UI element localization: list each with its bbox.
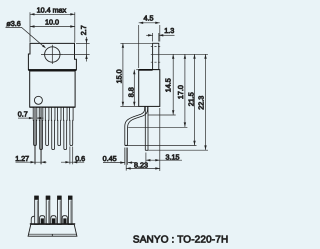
dimension 15.0 <box>120 43 152 106</box>
dimension 22.3 <box>205 54 207 150</box>
svg-text:1.27: 1.27 <box>15 154 29 163</box>
dimension 1.3 <box>146 33 174 42</box>
dimension 0.6 <box>61 147 84 165</box>
hidden hole lines in tab <box>151 46 161 62</box>
dimension 14.5 <box>172 54 174 114</box>
3D base inner bottom line <box>29 233 77 235</box>
body bottom edge <box>30 106 75 108</box>
svg-text:0.6: 0.6 <box>75 154 85 163</box>
3D tall pin 4 <box>68 196 72 224</box>
level line bend end <box>128 126 187 128</box>
3D base corner arc <box>31 216 34 224</box>
svg-text:21.5: 21.5 <box>186 92 195 106</box>
3D tall pin 2 inner edge <box>48 201 50 224</box>
lead A bent <box>125 106 148 145</box>
dimension 10.4 max <box>30 12 75 42</box>
dimension 2.7 <box>64 37 90 62</box>
dimension 3.15 <box>146 153 182 164</box>
dimension 0.45 <box>103 148 136 165</box>
3D bent pin arch 2 <box>51 216 56 225</box>
dimension 1.27 <box>16 108 47 164</box>
dimension 8.8 <box>134 70 138 107</box>
3D bent pin arch 1 <box>31 216 67 225</box>
3D tall pin 2 <box>46 196 50 224</box>
dimension 10.0 <box>30 26 75 28</box>
pin 3 <box>45 107 49 145</box>
pin 2 <box>39 107 43 149</box>
pin 6 <box>63 107 67 149</box>
dimension 8.23 <box>126 148 160 171</box>
svg-text:3.15: 3.15 <box>166 152 180 161</box>
svg-text:4.5: 4.5 <box>144 14 154 23</box>
svg-text:14.5: 14.5 <box>164 78 173 92</box>
3D tall pin 1 inner edge <box>36 201 38 224</box>
level line bend start <box>148 114 176 116</box>
svg-text:8.8: 8.8 <box>126 87 135 97</box>
tab/body thick boundary line <box>28 69 76 71</box>
dimension 4.5 <box>139 23 160 68</box>
level line lead B tip <box>145 149 208 151</box>
svg-text:17.0: 17.0 <box>176 85 185 99</box>
3D view base block <box>28 224 77 236</box>
svg-text:0.45: 0.45 <box>103 154 117 163</box>
hole centerline extension <box>151 53 208 55</box>
svg-text:1.3: 1.3 <box>164 26 174 35</box>
side view body <box>139 70 160 107</box>
3D bent pin arch 3 <box>62 216 67 225</box>
svg-text:ø3.6: ø3.6 <box>6 19 20 28</box>
hole crosshair vertical <box>51 45 53 64</box>
front view tab outline <box>28 43 76 69</box>
pin 4 <box>51 107 55 149</box>
svg-text:15.0: 15.0 <box>114 69 123 83</box>
index circle <box>34 96 42 104</box>
3D tall pin 4 inner edge <box>70 201 72 224</box>
3D tall pin 3 inner edge <box>59 201 61 224</box>
svg-text:0.7: 0.7 <box>18 109 28 118</box>
3D tall pin 1 <box>35 196 72 224</box>
3D base center tick <box>51 234 53 236</box>
svg-text:2.7: 2.7 <box>79 25 88 35</box>
side body top thick edge <box>139 69 153 71</box>
pin 7 <box>70 107 74 145</box>
pin 1 <box>33 107 73 149</box>
3D tall pin 3 <box>58 196 62 224</box>
pin 5 <box>57 107 61 145</box>
mounting hole <box>45 47 60 62</box>
front view body <box>30 71 75 107</box>
dimension 21.5 <box>194 54 196 145</box>
svg-text:SANYO : TO-220-7H: SANYO : TO-220-7H <box>133 235 228 246</box>
svg-text:22.3: 22.3 <box>197 96 206 110</box>
dimension 17.0 <box>184 54 186 127</box>
svg-text:8.23: 8.23 <box>134 160 148 169</box>
lead B straight <box>145 106 148 150</box>
svg-text:10.4 max: 10.4 max <box>37 6 67 15</box>
side view tab <box>153 43 159 69</box>
mounting plane extension line <box>159 108 161 171</box>
svg-text:10.0: 10.0 <box>45 17 59 26</box>
hole crosshair horizontal <box>41 54 64 56</box>
level line lead A tip <box>125 145 197 147</box>
